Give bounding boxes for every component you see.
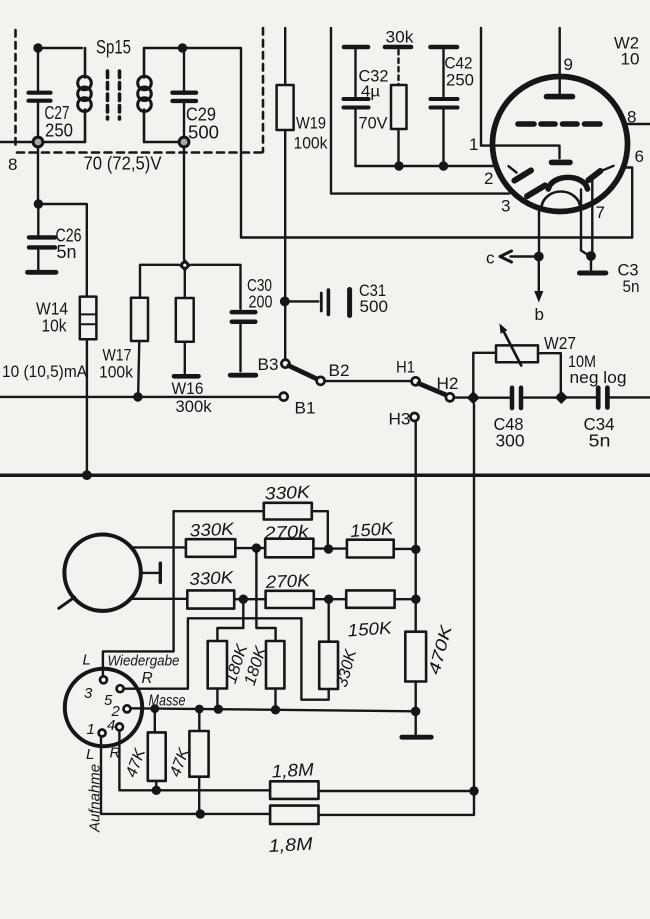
svg-text:270k: 270k	[263, 521, 310, 543]
contact B2	[317, 361, 350, 385]
wire DIN pin4 R to 1,8M first	[119, 730, 270, 790]
resistor 30k	[385, 28, 414, 167]
svg-text:300: 300	[496, 431, 525, 451]
switch blade H1-H2	[419, 384, 447, 396]
wire node A down	[37, 147, 39, 204]
wire meter line left	[0, 396, 280, 398]
wire C29 junction to right corner down to long bus	[187, 48, 241, 238]
wire pin6 electrode diag	[600, 166, 614, 172]
svg-text:150K: 150K	[349, 518, 395, 541]
junction diamond C48	[555, 391, 568, 404]
wire Masse bus	[130, 708, 415, 711]
junction mid right	[411, 545, 420, 554]
wire H3 down to 470K	[415, 421, 417, 632]
svg-text:5n: 5n	[623, 277, 640, 296]
contact H1	[396, 359, 420, 386]
svg-text:330K: 330K	[264, 482, 311, 504]
svg-text:300k: 300k	[176, 397, 212, 416]
wire bottom right winding	[144, 141, 179, 143]
wire pin 7 down	[591, 179, 593, 252]
svg-text:Aufnahme: Aufnahme	[87, 764, 104, 833]
svg-text:330K: 330K	[189, 519, 235, 541]
svg-text:1,8M: 1,8M	[271, 759, 314, 781]
svg-text:3: 3	[84, 685, 93, 702]
node ring B	[179, 137, 189, 147]
wire low row c	[395, 598, 416, 600]
wire 180K first bottom lead	[216, 689, 218, 710]
svg-text:5n: 5n	[57, 242, 77, 262]
wire node to W17	[140, 265, 179, 298]
capacitor C33 label	[618, 261, 640, 297]
junction low row b	[324, 595, 333, 604]
resistor W21 cut labels	[614, 34, 640, 69]
junction mid row b	[324, 544, 333, 553]
svg-text:70 (72,5)V: 70 (72,5)V	[84, 154, 162, 174]
svg-text:8: 8	[8, 155, 17, 174]
svg-text:6: 6	[635, 147, 644, 166]
svg-text:c: c	[486, 249, 495, 268]
capacitor C29	[173, 52, 220, 143]
dashed shield box bottom	[17, 151, 262, 154]
resistor W17	[99, 298, 148, 382]
wire pin 1 feed	[481, 28, 560, 158]
wire W19 down to B3	[284, 130, 286, 359]
tube grid dashes	[518, 121, 600, 127]
resistor 470K	[405, 622, 456, 681]
ground chassis bar bottom	[402, 735, 432, 740]
resistor 47K second	[167, 709, 209, 814]
wire node B down to mixer node	[183, 147, 185, 260]
tube cathode arc	[548, 177, 587, 189]
svg-text:H2: H2	[437, 375, 459, 393]
junction 30k bottom	[394, 161, 403, 170]
DIN pin 1	[99, 730, 106, 737]
junction low row a	[239, 595, 248, 604]
contact B1	[280, 393, 316, 418]
svg-text:3: 3	[501, 197, 510, 216]
svg-text:470K: 470K	[425, 622, 456, 676]
svg-text:R: R	[142, 670, 153, 687]
junction 180K second bottom	[271, 705, 280, 714]
resistor 270K low	[264, 570, 314, 608]
svg-text:200: 200	[249, 292, 273, 312]
svg-text:30k: 30k	[386, 28, 414, 47]
DIN pin 2 masse	[124, 705, 131, 712]
svg-text:10 (10,5)mA: 10 (10,5)mA	[2, 362, 88, 381]
wire heater bus to tube pin 2	[356, 165, 496, 167]
junction C42 bottom	[439, 161, 448, 170]
junction 180K first bottom	[214, 705, 223, 714]
svg-text:Masse: Masse	[149, 693, 186, 710]
DIN pin R upper	[117, 685, 124, 692]
junction pin7/ground	[586, 251, 596, 261]
junction W14 on bus	[82, 470, 92, 480]
svg-text:neg log: neg log	[570, 369, 627, 387]
thick separator bus	[0, 473, 650, 477]
wire low row b	[314, 598, 346, 600]
arrow b	[534, 261, 544, 324]
wire pin 9	[559, 28, 561, 94]
resistor 150K mid	[347, 518, 395, 558]
junction 47K first top	[150, 704, 159, 713]
tube screen bar	[552, 160, 571, 166]
tube base dome	[542, 192, 581, 209]
tube heater bar left	[514, 170, 531, 180]
svg-text:7: 7	[596, 203, 605, 222]
junction low right	[411, 595, 420, 604]
wire 470K to ground	[415, 682, 417, 735]
dashed shield box left side	[14, 30, 17, 150]
contact H2	[437, 375, 459, 401]
resistor W16	[172, 269, 212, 416]
svg-text:250: 250	[45, 121, 73, 141]
svg-text:B2: B2	[329, 361, 350, 380]
svg-text:9: 9	[564, 55, 573, 74]
junction 47K second low	[196, 809, 205, 818]
wire Wiedergabe R run	[124, 618, 302, 688]
resistor 180K second	[241, 641, 285, 689]
wire 180K second bottom lead	[274, 689, 276, 710]
wire cathode down to c/b node	[538, 209, 540, 252]
transformer Sp15	[78, 38, 152, 143]
svg-text:W27: W27	[544, 333, 576, 353]
svg-text:W19: W19	[296, 114, 326, 133]
tube anode bar	[547, 94, 573, 100]
resistor W14	[36, 297, 96, 340]
tube envelope	[493, 77, 628, 212]
svg-text:H1: H1	[396, 359, 415, 377]
node ring A	[33, 137, 43, 147]
wire DIN pin1 L to 1,8M second	[101, 736, 270, 814]
junction masse-ground	[411, 707, 421, 717]
contact H3	[389, 411, 419, 429]
DIN pin L top	[100, 676, 107, 683]
wire low row a	[234, 598, 265, 600]
ground chassis bar right	[580, 260, 606, 273]
svg-text:4µ: 4µ	[361, 84, 380, 101]
wire junction to W14	[38, 204, 86, 297]
head ground stub	[141, 563, 161, 582]
svg-text:10: 10	[621, 50, 640, 69]
junction diamond H2	[467, 391, 480, 404]
junction W17 line	[133, 392, 143, 402]
svg-text:500: 500	[360, 297, 389, 316]
svg-text:500: 500	[188, 123, 219, 143]
wire top line to tube pin 3	[331, 28, 509, 194]
capacitor C32	[344, 47, 389, 166]
junction top-left	[33, 43, 42, 52]
svg-text:250: 250	[446, 71, 474, 90]
resistor 330K vertical	[301, 599, 360, 700]
junction top C29	[178, 43, 187, 52]
capacitor C30	[191, 265, 273, 375]
capacitor C26	[28, 204, 82, 272]
capacitor C34	[566, 388, 650, 451]
resistor 1,8M first	[270, 759, 474, 799]
capacitor C27	[29, 52, 74, 141]
svg-text:4: 4	[107, 717, 115, 734]
resistor 330K low	[187, 567, 235, 609]
junction left node	[34, 199, 43, 208]
resistor 270K mid	[263, 521, 314, 557]
wire H2 to junction	[454, 396, 468, 398]
wire W17 down	[138, 341, 139, 392]
junction C31 node	[280, 297, 290, 307]
junction 1,8M right	[469, 786, 478, 795]
node diamond mixer	[179, 259, 192, 272]
capacitor C31	[290, 281, 389, 316]
wire top330K left drop to DIN pin L	[103, 511, 174, 676]
wire into pin2 electrode	[509, 166, 517, 172]
svg-text:W16: W16	[172, 380, 204, 398]
wire mid row c	[394, 548, 416, 550]
wire top right winding to C29 node	[144, 47, 178, 49]
svg-text:100k: 100k	[294, 134, 328, 153]
svg-text:2: 2	[484, 169, 493, 188]
resistor 330K top	[174, 482, 328, 545]
wire pin 6	[623, 168, 632, 238]
svg-text:C29: C29	[186, 105, 216, 125]
head pointer tick	[59, 597, 75, 608]
capacitor C42	[431, 47, 475, 166]
resistor 1,8M second	[268, 806, 318, 856]
wire branch to 180K first	[217, 599, 243, 641]
svg-text:270K: 270K	[264, 570, 311, 592]
svg-text:330K: 330K	[189, 567, 235, 589]
svg-text:1: 1	[87, 721, 95, 738]
wire head to mid 330K	[131, 546, 186, 548]
svg-text:L: L	[86, 746, 94, 763]
switch blade B3-B2	[289, 366, 318, 380]
wire B2 to H1	[325, 380, 412, 382]
DIN connector circle	[65, 669, 142, 746]
wire top left winding	[42, 47, 82, 49]
capacitor C48	[480, 388, 557, 451]
svg-text:8: 8	[627, 108, 636, 127]
wire W14 down to thick bus	[86, 339, 88, 475]
svg-text:10k: 10k	[42, 316, 67, 336]
resistor 330K mid	[186, 519, 236, 557]
wire cathode arc right down	[581, 190, 589, 256]
svg-text:L: L	[83, 652, 91, 669]
contact B3	[258, 355, 290, 374]
svg-text:1,8M: 1,8M	[268, 834, 313, 856]
wire head to low 330K	[131, 598, 187, 600]
head circle	[64, 535, 140, 611]
wire branch to 180K second	[256, 548, 275, 641]
resistor W19	[277, 28, 328, 153]
wire pin 8	[624, 123, 650, 125]
junction 47K first low	[152, 786, 161, 795]
svg-text:150K: 150K	[347, 617, 394, 640]
DIN pin 4	[116, 723, 123, 730]
potentiometer W27	[473, 323, 626, 394]
wire bottom left winding	[43, 141, 86, 143]
DIN labels	[83, 652, 186, 833]
svg-text:5n: 5n	[589, 431, 611, 451]
wire mid row b	[313, 547, 347, 549]
wire left stub to node	[0, 141, 33, 143]
resistor 180K first	[208, 641, 252, 689]
arrow c	[486, 249, 534, 268]
dashed shield box right side	[262, 28, 265, 152]
wire mid row a	[235, 547, 265, 549]
svg-text:b: b	[535, 305, 544, 324]
svg-text:B1: B1	[295, 399, 316, 418]
svg-text:H3: H3	[389, 411, 411, 429]
wire H2 junction down to 1,8M second	[319, 404, 474, 815]
tube heater bar lower-left	[527, 185, 545, 196]
svg-text:47K: 47K	[123, 745, 149, 779]
svg-text:Wiedergabe: Wiedergabe	[108, 654, 180, 670]
svg-text:Sp15: Sp15	[96, 38, 131, 59]
long bus wire y237	[241, 236, 632, 238]
svg-text:R: R	[110, 745, 121, 762]
svg-text:1: 1	[469, 135, 478, 154]
svg-text:100k: 100k	[99, 363, 133, 382]
junction cb	[534, 252, 544, 262]
svg-text:B3: B3	[258, 355, 279, 374]
junction 47K second top	[195, 705, 204, 714]
svg-text:70V: 70V	[359, 114, 389, 133]
resistor 47K first	[123, 709, 166, 791]
resistor 150K low	[346, 590, 394, 640]
junction mid row	[252, 543, 261, 552]
tube heater bar right	[588, 171, 600, 180]
